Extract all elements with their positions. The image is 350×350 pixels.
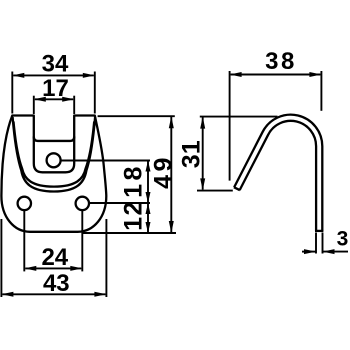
dimension 38	[230, 71, 322, 181]
leader from small hole	[61, 160, 150, 162]
mounting hole left	[18, 197, 31, 210]
svg-text:3: 3	[337, 227, 349, 250]
svg-text:12: 12	[120, 200, 148, 231]
hook bottom cap	[315, 230, 323, 232]
mounting hole right	[76, 197, 89, 210]
dimension 24	[24, 211, 82, 272]
dimension 18	[147, 161, 149, 234]
svg-text:18: 18	[120, 163, 148, 198]
dimension 49	[170, 116, 172, 233]
dimension 12	[146, 203, 151, 214]
svg-text:24: 24	[41, 244, 68, 271]
dimension 43	[1, 219, 106, 297]
hook body (tube)	[237, 118, 319, 231]
svg-text:34: 34	[42, 51, 69, 78]
inner ridge arc	[14, 122, 95, 187]
outer ridge arc	[13, 117, 96, 192]
hook tip cap	[234, 187, 240, 190]
plate outline	[1, 116, 106, 232]
svg-text:38: 38	[265, 48, 297, 75]
svg-text:31: 31	[178, 140, 206, 168]
bend line (crossbar in slot)	[34, 137, 74, 141]
dimension 31	[200, 116, 278, 118]
leader from right mounting hole	[89, 202, 150, 204]
dimension 34	[12, 72, 95, 114]
svg-text:49: 49	[150, 154, 178, 189]
small hole	[47, 153, 61, 167]
svg-text:17: 17	[42, 75, 69, 102]
top extension line (front)	[98, 115, 175, 117]
svg-text:43: 43	[43, 270, 70, 297]
dimension 3	[302, 233, 348, 254]
dimension 17	[34, 96, 74, 114]
bottom extension line (front)	[83, 232, 176, 234]
